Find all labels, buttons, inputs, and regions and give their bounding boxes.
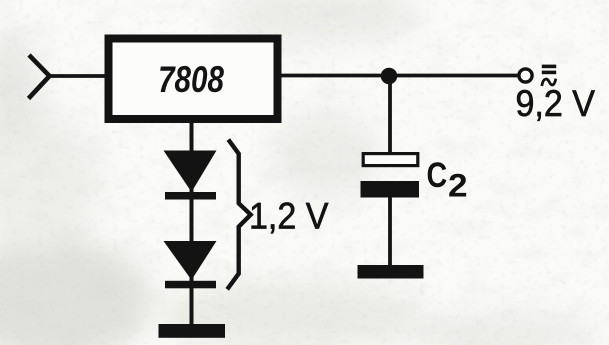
svg-text:C: C — [427, 155, 448, 194]
svg-text:7808: 7808 — [158, 60, 224, 101]
svg-text:1,2 V: 1,2 V — [249, 195, 329, 237]
svg-text:2: 2 — [448, 169, 468, 204]
svg-text:9,2 V: 9,2 V — [516, 83, 596, 125]
